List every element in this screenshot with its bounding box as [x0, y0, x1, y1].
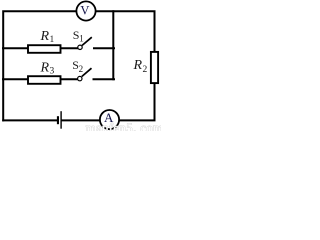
svg-text:R: R	[40, 29, 50, 44]
svg-text:2: 2	[79, 64, 84, 74]
battery negative plate (short thick)	[57, 116, 59, 124]
switch S1	[78, 37, 92, 49]
wire branch2 stub to node	[94, 78, 115, 80]
wire branch1 stub to node	[94, 47, 114, 49]
svg-text:2: 2	[143, 65, 148, 75]
svg-text:3: 3	[50, 67, 55, 77]
wire branch1 resistor-to-switch	[61, 47, 78, 49]
svg-text:R: R	[133, 58, 143, 73]
wire middle vertical node	[112, 11, 114, 79]
resistor R1	[28, 45, 61, 53]
resistor R2	[151, 52, 158, 83]
wire bottom-left segment	[3, 119, 57, 121]
voltmeter V	[76, 1, 95, 20]
wire branch2 left	[3, 78, 28, 80]
svg-text:1: 1	[50, 35, 55, 45]
svg-text:manfen5. com: manfen5. com	[86, 120, 162, 131]
wire right-bottom segment	[120, 84, 155, 121]
svg-text:R: R	[40, 60, 50, 75]
wire top-left segment	[3, 11, 76, 120]
resistor R3	[28, 76, 61, 84]
ammeter A	[100, 110, 119, 129]
wire top-right segment	[96, 11, 155, 51]
wire battery to ammeter	[62, 119, 100, 121]
switch S2	[78, 68, 92, 81]
svg-text:1: 1	[79, 33, 84, 43]
wire branch1 left	[3, 47, 28, 49]
svg-text:V: V	[80, 3, 89, 17]
wire branch2 resistor-to-switch	[61, 78, 78, 80]
battery positive plate (long thin)	[60, 111, 61, 129]
